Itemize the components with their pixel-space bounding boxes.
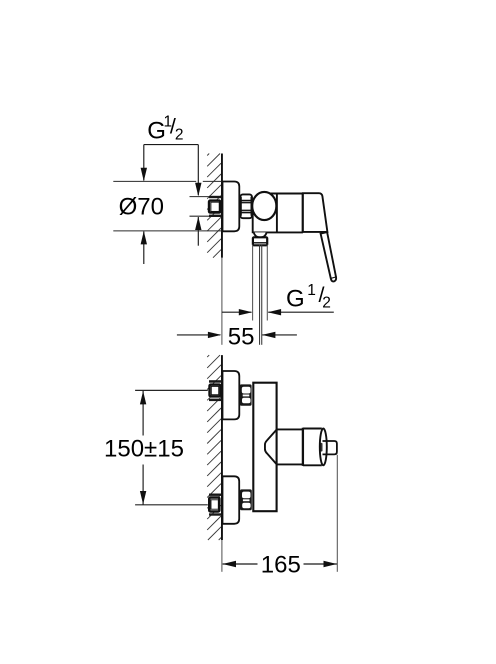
handle base (view 1) [303,193,328,232]
ball of mixer (view 1) [252,192,276,220]
svg-text:1: 1 [307,282,316,299]
dimension bracket line for G 1/2 top [144,145,199,264]
bold divider body/handle base (view 1) [302,193,305,233]
lower union nut (view 2) [240,489,252,510]
knob section lines (view 2) [303,428,322,430]
wall line (view 2) [221,355,223,540]
svg-text:2: 2 [322,295,331,312]
escutcheon wall plate (view 1) [223,182,240,232]
upper wall fitting (view 2) [209,380,222,383]
mixer body (view 2, front) [253,383,276,512]
upper escutcheon (view 2) [223,371,240,419]
end stub (view 2) [323,441,337,454]
wall line (view 1) [221,154,223,258]
wall fitting square body (view 1) [209,201,220,213]
handle cylinder (view 2) [277,428,303,430]
outlet nut (view 1) [253,237,267,245]
svg-text:150±15: 150±15 [104,436,184,463]
svg-text:G: G [286,286,305,313]
lower escutcheon (view 2) [223,476,240,524]
bold divider cylinder/knob (view 2) [302,428,304,466]
supply pipe lines (view 2) [135,390,208,504]
dimension 55 lines [177,334,297,336]
witness lines O70 and G1/2 (view 1) [113,181,223,231]
outlet thread witness lines / pipe (view 1) [253,245,268,321]
dimension 165 line [223,563,337,565]
cartridge cone (view 2) [265,430,277,465]
lower wall fitting (view 2) [209,494,221,496]
wall section (view 1, side view) hatching [207,154,221,258]
wall section (view 2) hatching [207,355,221,540]
mixer body (view 1) [253,194,303,233]
svg-text:2: 2 [175,126,184,143]
svg-text:Ø70: Ø70 [119,194,164,221]
knob axis dark ellipse [319,443,324,452]
arrows for dims [141,168,147,181]
G 1/2 outlet leader lines [222,311,334,313]
svg-text:165: 165 [261,552,301,579]
outlet boss under body (view 1) [254,232,267,237]
witness lines 165 [222,455,337,572]
wall fitting flange bars (view 1) [209,196,221,198]
lever handle (view 1) [321,232,337,281]
wall witness line below (view 1) [221,258,223,345]
dimension 150±15 lines [142,391,144,505]
knob end cap ellipse (view 2) [320,429,327,466]
upper union nut (view 2) [240,384,252,405]
union nut on supply (view 1) [240,194,252,218]
svg-text:55: 55 [228,324,255,351]
